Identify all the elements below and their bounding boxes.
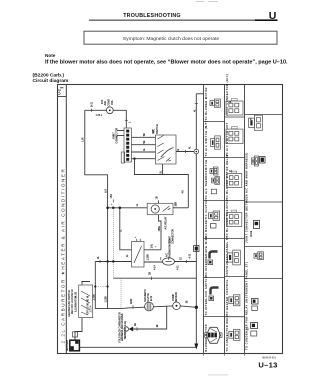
- tick on drop wire: [125, 119, 128, 121]
- clutch row wire: [121, 307, 145, 308]
- dotted branch: [112, 208, 114, 278]
- svg-text:1L: 1L: [127, 254, 129, 257]
- col2 block B-01: [226, 101, 243, 115]
- cluster top wire: [82, 282, 90, 286]
- svg-text:FOLD BACK CARBURETOR: FOLD BACK CARBURETOR: [119, 312, 122, 343]
- svg-text:1 2 3 4: 1 2 3 4: [89, 305, 92, 313]
- svg-text:1G: 1G: [181, 257, 183, 260]
- col3 cell divider: [245, 246, 284, 248]
- svg-text:If the blower motor also does: If the blower motor also does not operat…: [45, 59, 288, 65]
- svg-text:1B: 1B: [157, 324, 159, 327]
- svg-text:Note: Note: [45, 53, 56, 58]
- col3 cell divider: [245, 201, 284, 203]
- col2 connector B-06: [229, 297, 234, 304]
- svg-text:CLUTCH: CLUTCH: [148, 293, 150, 303]
- relay top pin: [158, 200, 160, 203]
- svg-text:JOINT: JOINT: [170, 236, 172, 243]
- col1 cell divider: [204, 157, 225, 159]
- svg-text:10A: 10A: [101, 99, 104, 104]
- battery output wire: [79, 346, 196, 348]
- strip right wire 2: [131, 144, 155, 146]
- svg-text:BATTERY: BATTERY: [66, 339, 69, 350]
- strip right wire 1: [131, 136, 155, 138]
- heater fan switch cluster: [79, 285, 93, 318]
- sidebar divider: [65, 85, 67, 354]
- column divider 3: [244, 85, 246, 354]
- svg-text:Circuit diagram: Circuit diagram: [33, 78, 70, 84]
- magnetic clutch M1: [145, 302, 154, 311]
- svg-text:1.25B: 1.25B: [93, 294, 95, 301]
- footer specks: [208, 374, 228, 377]
- junction row y=208: [108, 207, 148, 209]
- svg-text:1B: 1B: [156, 196, 159, 199]
- col1 harness arrow 2: [211, 288, 219, 295]
- svg-text:1L: 1L: [120, 229, 123, 232]
- svg-text:5B: 5B: [144, 133, 146, 136]
- col3 connector C-03: [254, 221, 260, 229]
- scan specks top: [196, 0, 204, 3]
- svg-text:1B: 1B: [135, 323, 137, 326]
- resistor lower wire: [144, 261, 163, 263]
- svg-text:HARNESS AND GROUND: HARNESS AND GROUND: [121, 313, 124, 341]
- svg-text:TO A/C SWITCH (M/T): TO A/C SWITCH (M/T): [205, 120, 208, 156]
- col1 connector X-04: [212, 178, 215, 183]
- svg-text:M/T: M/T: [153, 129, 155, 134]
- compressor symbol: [173, 302, 181, 310]
- battery B+: [70, 340, 80, 351]
- blower resistor R1: [132, 242, 145, 268]
- col2 connector B-07: [229, 331, 234, 338]
- svg-text:5B: 5B: [144, 140, 146, 143]
- svg-text:TO BLOWER RESISTOR: TO BLOWER RESISTOR: [226, 199, 229, 238]
- svg-text:4L: 4L: [189, 146, 192, 149]
- column divider 2: [224, 85, 226, 354]
- svg-text:TROUBLESHOOTING: TROUBLESHOOTING: [123, 13, 181, 19]
- tick on feed wire: [91, 109, 93, 112]
- fuse F1: [106, 107, 113, 114]
- rule under section letter: [255, 19, 278, 21]
- svg-text:2L: 2L: [97, 256, 100, 259]
- ground with arrow: [124, 327, 128, 331]
- col1 cell divider: [204, 316, 225, 318]
- col3 connector C-01: [249, 118, 255, 127]
- resistor feed wire: [120, 208, 132, 250]
- col1 small connector X-06: [211, 224, 217, 229]
- thermo feed row y=261.5: [95, 261, 131, 263]
- inline connector on trunk: [194, 149, 199, 154]
- col1 connector X-03: [210, 169, 213, 174]
- svg-text:TO A/C THERMOSWITCH: TO A/C THERMOSWITCH: [205, 159, 208, 199]
- divider stubs below frame: [203, 354, 205, 356]
- strip right wire 3: [131, 151, 155, 153]
- sidebar corner box line: [58, 96, 67, 98]
- col1 cell divider: [204, 200, 225, 202]
- blower motor symbol: [206, 327, 220, 343]
- wire fuse to corner: [113, 110, 126, 128]
- left drop wires: [95, 262, 121, 309]
- wire main feed top: [85, 109, 107, 111]
- svg-text:1.25 L: 1.25 L: [96, 114, 103, 117]
- svg-text:+: +: [110, 203, 113, 205]
- svg-text:1BW: 1BW: [131, 298, 133, 304]
- col3 connector C-02 with J/B: [252, 158, 255, 164]
- svg-text:4L 2B: 4L 2B: [74, 291, 77, 298]
- svg-text:REC OFF LO M1 M2 HI: REC OFF LO M1 M2 HI: [72, 289, 74, 314]
- connector strip J-01: [124, 128, 131, 162]
- col3 cell divider: [245, 278, 284, 280]
- svg-text:2.2L CARBURETOR ★HEATER & AIR: 2.2L CARBURETOR ★HEATER & AIR CONDITIONE…: [60, 168, 65, 344]
- col2 cell divider: [225, 316, 245, 318]
- col1 harness arrow 1: [210, 252, 218, 259]
- svg-text:4L: 4L: [143, 148, 146, 151]
- svg-text:L/R: L/R: [82, 137, 85, 141]
- col2 cell divider: [225, 276, 245, 278]
- svg-text:4-14: 4-14: [154, 265, 157, 270]
- col2 connector B-05: [227, 253, 232, 262]
- trunk junction dot: [195, 306, 198, 309]
- svg-text:4-11: 4-11: [177, 265, 180, 270]
- svg-text:2B: 2B: [149, 272, 152, 275]
- svg-text:86: 86: [229, 101, 232, 104]
- col1 cell divider: [204, 277, 225, 279]
- strip right wire 4: [131, 158, 155, 160]
- symptom box: [84, 31, 277, 44]
- svg-text:08U0UX-021: 08U0UX-021: [262, 357, 276, 360]
- wire switch to relay vertical: [163, 175, 189, 208]
- svg-text:1/3L: 1/3L: [152, 243, 154, 248]
- svg-text:(B2200 Carb.): (B2200 Carb.): [33, 72, 65, 78]
- svg-text:U–13: U–13: [258, 361, 277, 370]
- small connector above battery: [73, 332, 78, 337]
- svg-text:L/O: L/O: [104, 189, 107, 193]
- header rule: [89, 20, 278, 21]
- wire switch bottom jog: [135, 159, 163, 175]
- svg-text:TO CONDENSER FAN RELAY (INSTRU: TO CONDENSER FAN RELAY (INSTRUMENT PANEL…: [246, 262, 249, 350]
- svg-text:RESSOR: RESSOR: [176, 292, 178, 302]
- A/C switch SW1: [156, 135, 177, 164]
- svg-text:A/C RELAY: A/C RELAY: [165, 216, 168, 229]
- col1 connector X-01: [210, 101, 214, 106]
- col2 cell divider: [225, 157, 245, 159]
- svg-text:COMP: COMP: [173, 294, 175, 301]
- svg-text:+: +: [156, 246, 158, 248]
- col2 cell divider: [225, 200, 245, 202]
- svg-text:CONNECTOR: CONNECTOR: [172, 229, 174, 244]
- svg-text:MAGNETIC: MAGNETIC: [144, 289, 147, 302]
- svg-text:B: B: [178, 149, 180, 151]
- svg-text:SWITCH: SWITCH: [156, 124, 159, 134]
- A/C thermoswitch TS1: [163, 258, 175, 265]
- svg-text:M-09: M-09: [250, 230, 253, 236]
- svg-text:1.25B: 1.25B: [106, 296, 108, 303]
- col3 connector C-04: [254, 253, 258, 258]
- column divider 1: [203, 85, 205, 354]
- strip left wires: [117, 130, 124, 132]
- ground wire: [133, 307, 167, 330]
- svg-text:15A: 15A: [111, 100, 114, 105]
- svg-text:1L: 1L: [136, 203, 139, 206]
- svg-text:TO INTERMEDIATE WIRE: TO INTERMEDIATE WIRE: [205, 236, 208, 277]
- col2 cell divider: [225, 116, 245, 118]
- col2 block B-02: [226, 129, 243, 144]
- diagram outer frame: [58, 85, 283, 354]
- col3 connector C-05: [252, 299, 259, 305]
- col1 cell divider: [204, 121, 225, 123]
- col1 cell divider: [204, 238, 225, 240]
- svg-text:15A: 15A: [110, 194, 113, 199]
- svg-text:TO BLOWER MOTOR RELAY: TO BLOWER MOTOR RELAY: [226, 154, 229, 200]
- wire left main vertical: [85, 110, 108, 261]
- col1 connector X-05: [209, 213, 214, 219]
- svg-text:1BR: 1BR: [176, 202, 178, 207]
- A/C relay RY1: [147, 203, 173, 214]
- svg-text:TO BLOWER MOTOR: TO BLOWER MOTOR: [205, 87, 208, 120]
- thermoswitch out wire: [175, 261, 197, 263]
- svg-text:HEATER FAN SWITCH: HEATER FAN SWITCH: [68, 290, 71, 317]
- svg-text:1B: 1B: [187, 300, 189, 303]
- svg-text:TO HEATER CONTROL: TO HEATER CONTROL: [226, 279, 229, 316]
- svg-text:+: +: [134, 236, 137, 238]
- clutch feed dotted: [120, 278, 122, 307]
- svg-text:OFF LO M1 M2 HI: OFF LO M1 M2 HI: [88, 296, 90, 315]
- resistor out wire: [144, 249, 161, 251]
- col2 block B-04: [227, 213, 242, 227]
- trunk small connector: [194, 246, 199, 252]
- svg-text:4-21: 4-21: [189, 253, 192, 258]
- trunk bottom arrow: [194, 344, 198, 350]
- cluster bottom wire to battery: [75, 318, 82, 341]
- svg-text:TO INTERLOCK SWITCH: TO INTERLOCK SWITCH: [205, 276, 208, 316]
- svg-text:B-21: B-21: [91, 101, 94, 107]
- col1 connector X-02: [211, 139, 215, 147]
- relay right wire: [173, 207, 188, 209]
- svg-text:Symptom: Magnetic clutch does: Symptom: Magnetic clutch does not operat…: [123, 36, 220, 42]
- col3 connector C-06: [251, 323, 258, 329]
- svg-text:1.25B: 1.25B: [148, 254, 150, 261]
- svg-text:B-02: B-02: [151, 295, 153, 301]
- svg-text:JOINT CONNECTOR (BETWEEN A/C A: JOINT CONNECTOR (BETWEEN A/C AND MAIN HA…: [246, 152, 249, 243]
- long lower bus: [113, 277, 196, 279]
- svg-text:TO CONNECTOR MAIN: TO CONNECTOR MAIN: [226, 315, 229, 352]
- svg-text:TO MAGNETIC CLUTCH: TO MAGNETIC CLUTCH: [205, 199, 208, 237]
- col2 block B-03: [227, 174, 242, 188]
- wire right trunk: [195, 94, 197, 346]
- svg-text:1BW: 1BW: [158, 225, 161, 231]
- col3 cell divider: [245, 114, 284, 116]
- svg-text:4G: 4G: [182, 190, 185, 193]
- svg-text:L: L: [129, 121, 132, 123]
- svg-text:U-2: U-2: [57, 89, 61, 95]
- svg-text:A/C: A/C: [166, 253, 169, 257]
- strip left stub box: [121, 152, 124, 163]
- col2 cell divider: [225, 238, 245, 240]
- col1 extra small connector: [211, 189, 216, 194]
- relay bottom pin wire: [159, 215, 162, 250]
- wire switch to trunk: [176, 151, 194, 153]
- svg-text:G1: G1: [229, 170, 233, 173]
